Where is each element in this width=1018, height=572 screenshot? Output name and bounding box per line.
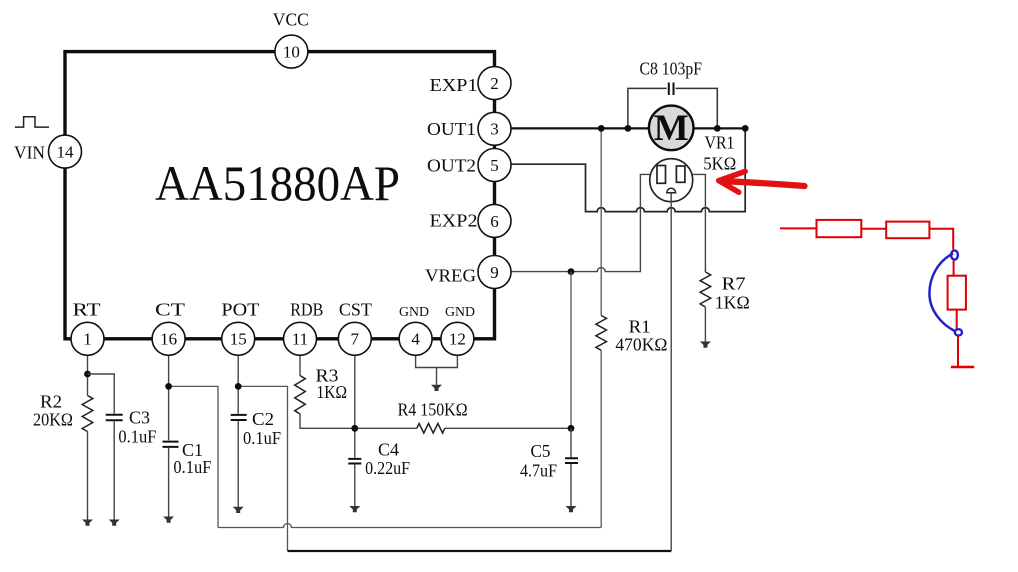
label R3 1K [316,366,348,403]
svg-text:0.1uF: 0.1uF [243,428,281,448]
label OUT2 [427,155,476,175]
svg-text:1KΩ: 1KΩ [715,293,750,313]
label R2 20K [33,392,73,430]
svg-text:VR1: VR1 [705,133,735,153]
pin 10 VCC [275,35,308,68]
svg-text:M: M [654,108,689,149]
blue marker node top [951,250,958,259]
svg-text:7: 7 [351,330,360,349]
wire C1 to ground [168,448,170,517]
motor M1 [649,106,694,151]
wire OUT2 route (pin5 right, down, across with hops, up to OUT1 right dot) [511,128,745,211]
resistor R7 zigzag [700,272,711,307]
capacitor C5 plates [565,458,578,463]
pin 7 CST [338,322,371,355]
svg-text:VREG: VREG [425,265,476,285]
label VREG [425,265,476,285]
label RDB [290,300,323,320]
label C1 0.1uF [173,440,211,477]
svg-text:4.7uF: 4.7uF [520,461,557,481]
label C5 4.7uF [520,441,557,481]
label POT [221,300,259,320]
wire R7 to ground [704,307,706,342]
svg-text:EXP2: EXP2 [430,210,478,230]
IC U1 body AA51880AP [65,52,495,339]
label R7 1K [715,274,750,313]
svg-text:AA51880AP: AA51880AP [155,155,400,211]
pin 4 GND [399,322,432,355]
wire GND pins 4+12 bracket [416,355,458,385]
resistor R1 zigzag [596,316,607,351]
svg-text:1: 1 [83,330,92,349]
red sketch resistor box 1 [817,220,862,237]
label CT [155,300,185,320]
wire VR1 right terminal down to R7 [693,174,706,272]
red sketch resistor box 2 [886,222,929,239]
wire pin7 CST down [354,355,356,457]
svg-text:C4: C4 [378,440,399,460]
label EXP1 [430,75,478,95]
capacitor C1 plates [163,442,179,447]
wire1 bottom horizontal (CT branch to R1 bottom) with hop [218,524,601,528]
svg-text:11: 11 [292,330,308,349]
resistor R4 zigzag [417,424,445,434]
label GND (pin4) [399,305,429,320]
pin 5 OUT2 [478,149,511,182]
blue marker node bottom [955,329,962,335]
svg-text:C3: C3 [129,408,150,428]
svg-text:5: 5 [490,156,499,175]
wire C2 to ground [237,421,239,507]
svg-text:C8 103pF: C8 103pF [640,59,703,79]
wire R2 to ground [87,432,89,520]
wire R1 vertical from OUT1 dot [600,128,602,315]
pin 15 POT [222,322,255,355]
capacitor C3 plates [106,415,123,420]
wire2 bottom horizontal (to VR1 wiper) [288,550,672,552]
junction dot RT/C3 [84,371,91,378]
svg-text:470KΩ: 470KΩ [615,335,667,355]
pin 11 RDB [284,322,317,355]
svg-text:RT: RT [73,300,101,320]
wire OUT1 horizontal net (pin3 to right) [511,127,745,129]
label VIN [14,143,45,163]
red sketch wire left [780,227,817,229]
label C4 0.22uF [365,440,410,479]
wire pin11 RDB down [299,355,301,375]
label CST [339,300,372,320]
junction dot CT [165,383,172,390]
label R4 150K [398,400,468,420]
svg-text:0.1uF: 0.1uF [173,457,211,477]
svg-text:12: 12 [449,330,466,349]
junction dot CST/R4 [351,425,358,432]
label VR1 5K [703,133,736,174]
label R1 470K [615,317,667,355]
svg-text:POT: POT [221,300,259,320]
svg-text:5KΩ: 5KΩ [703,154,736,174]
junction dot OUT1 right corner [742,125,749,132]
wire R4 right to C5 node [445,427,571,429]
ground below GND pins [431,385,442,391]
potentiometer VR1 socket symbol [650,159,693,202]
svg-text:6: 6 [490,212,499,231]
wire C4 to ground [354,465,356,506]
resistor R2 zigzag [82,396,93,432]
wire R3 bottom to node [300,414,417,428]
red sketch ground bar [951,366,974,369]
wire VREG route (pin9 right with hop, up to VR1 left terminal) [511,174,650,271]
ground below R2 [82,520,93,526]
pin 14 VIN [49,135,82,168]
svg-text:3: 3 [490,120,499,139]
pin 2 EXP1 [478,67,511,100]
svg-text:R2: R2 [40,392,62,412]
svg-text:GND: GND [399,305,429,320]
svg-text:R4 150KΩ: R4 150KΩ [398,400,468,420]
pin 3 OUT1 [478,112,511,145]
svg-text:C2: C2 [252,409,274,429]
ground below C4 [349,506,360,512]
svg-text:OUT2: OUT2 [427,155,476,175]
junction dot OUT1/C8 right [714,125,721,132]
svg-text:9: 9 [490,263,499,282]
svg-text:0.22uF: 0.22uF [365,458,410,478]
wire C3 branch [88,374,115,414]
capacitor C4 plates [348,459,361,464]
junction dot OUT1/R1 [598,125,605,132]
svg-text:CST: CST [339,300,372,320]
red sketch wire to ground [957,336,959,366]
label OUT1 [427,119,476,139]
red sketch resistor box 3 (vertical) [948,276,966,310]
label VCC [273,9,309,29]
wire C5 to ground [570,464,572,506]
svg-text:R1: R1 [629,317,651,337]
svg-text:RDB: RDB [290,300,323,320]
wire R1 bottom down to wire1 [600,350,602,527]
label C8 103pF [640,59,703,79]
red sketch wire right + corner down [929,229,953,250]
red annotation arrow [719,171,805,192]
ground below C3 [109,520,120,526]
label EXP2 [430,210,478,230]
svg-text:0.1uF: 0.1uF [118,427,156,447]
pin 9 VREG [478,256,511,289]
svg-text:20KΩ: 20KΩ [33,410,73,430]
wire pin1 RT down [87,355,89,395]
pin 6 EXP2 [478,204,511,237]
ground below R7 [700,342,711,348]
wire C5 top [570,428,572,457]
svg-text:CT: CT [155,300,185,320]
svg-text:EXP1: EXP1 [430,75,478,95]
svg-text:OUT1: OUT1 [427,119,476,139]
resistor R3 zigzag [295,376,306,414]
wire C3 to ground [113,421,115,519]
svg-text:VCC: VCC [273,9,309,29]
svg-text:R7: R7 [722,274,746,294]
capacitor C2 plates [231,415,247,420]
label C2 0.1uF [243,409,281,448]
svg-text:14: 14 [57,143,75,162]
svg-text:10: 10 [283,43,300,62]
svg-text:C5: C5 [531,441,551,461]
wire pin16 CT down [168,355,170,440]
svg-text:2: 2 [490,74,499,93]
pin 1 RT [71,322,104,355]
wire CT branch right and down [169,386,218,527]
label GND (pin12) [445,305,475,320]
junction dot R4/C5 [568,425,575,432]
red sketch wire between boxes [861,228,886,230]
wire POT branch right and down [238,386,287,551]
junction dot OUT1/C8 left [625,125,632,132]
red sketch wire to vertical resistor [953,260,955,276]
capacitor C8 wires [628,88,717,128]
svg-text:16: 16 [160,330,177,349]
blue bypass curve [929,254,955,332]
red sketch wire below box 3 [956,310,958,329]
ground below C2 [233,507,244,513]
label C3 0.1uF [118,408,156,447]
wire pin15 POT down [237,355,239,414]
svg-text:GND: GND [445,305,475,320]
svg-text:15: 15 [230,330,247,349]
ground below C5 [566,506,577,512]
label RT [73,300,101,320]
wire VR1 wiper vertical [670,193,672,551]
junction dot VREG/C5 branch [568,268,575,275]
pin 12 GND [441,322,474,355]
pin 16 CT [152,322,185,355]
wire VREG down to R4/C5 node [570,272,572,429]
svg-text:VIN: VIN [14,143,45,163]
svg-text:4: 4 [411,330,420,349]
capacitor C8 plates [669,83,674,96]
junction dot POT [235,383,242,390]
input pulse waveform symbol [15,117,49,127]
svg-text:1KΩ: 1KΩ [317,382,348,402]
ground below C1 [163,517,174,523]
